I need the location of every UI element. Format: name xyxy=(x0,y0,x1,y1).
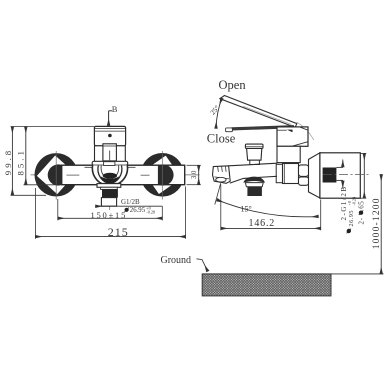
shower outlet dark crescent xyxy=(243,177,265,183)
dark threaded band xyxy=(102,189,118,197)
threaded nipple dark xyxy=(323,167,343,182)
handle inner column xyxy=(103,144,117,161)
svg-text:3.0: 3.0 xyxy=(191,170,198,179)
Ground label xyxy=(161,255,208,271)
svg-text:146.2: 146.2 xyxy=(249,218,276,229)
svg-text:2-: 2- xyxy=(358,217,366,224)
dim 1000-1200 to ground xyxy=(372,175,382,274)
ground hatched slab xyxy=(202,274,331,296)
spout top edge xyxy=(229,163,278,166)
B section arrow xyxy=(109,104,118,126)
side view center axis (dash-dot) xyxy=(323,174,370,176)
open lever inner line xyxy=(243,106,292,124)
spout tip cap xyxy=(213,166,231,184)
cartridge crown inner bowl xyxy=(98,166,122,183)
svg-text:1000-1200: 1000-1200 xyxy=(372,197,382,249)
crown bottom flange xyxy=(97,184,121,188)
body lower small section xyxy=(276,164,282,182)
dimension 215 xyxy=(35,187,185,240)
cartridge crown outer bowl xyxy=(92,165,127,183)
dimension 85.1 xyxy=(16,127,58,185)
right bar end dark cap xyxy=(152,164,173,185)
vertical axis through handle xyxy=(109,128,111,211)
svg-text:26.95: 26.95 xyxy=(130,207,146,214)
closed lever dark bar xyxy=(232,125,295,130)
crown dark crescent xyxy=(101,176,119,183)
svg-text:B: B xyxy=(112,104,118,114)
right escutcheon vertical crosshair xyxy=(161,151,163,200)
body upper block xyxy=(277,127,308,146)
open lever outline xyxy=(220,96,297,128)
G1/2B leader line with arrow xyxy=(96,205,163,207)
25-degree arc with arrows xyxy=(216,98,222,128)
body bar (horizontal) xyxy=(62,165,185,185)
dim 2-d65 escutcheon xyxy=(352,154,366,225)
tailpipe xyxy=(101,198,116,207)
shower outlet dark block xyxy=(247,187,262,196)
lever hidden curve to body xyxy=(297,122,314,140)
bar second lip lines xyxy=(85,166,93,168)
diverter knob on spout xyxy=(245,144,263,164)
crown inner cup line xyxy=(101,166,119,179)
svg-text:-0.28: -0.28 xyxy=(146,209,155,214)
wall cone xyxy=(309,153,320,198)
top extension line for 99.8/85.1 xyxy=(11,126,95,128)
svg-text:Ground: Ground xyxy=(161,255,192,266)
horizontal center axis of front view xyxy=(31,174,200,176)
svg-text:G1/2B: G1/2B xyxy=(121,198,140,206)
label d26.95 xyxy=(124,206,155,215)
svg-text:Close: Close xyxy=(207,132,236,146)
shower outlet groove band xyxy=(245,183,263,187)
neck xyxy=(101,187,118,189)
left escutcheon vertical crosshair xyxy=(55,151,57,200)
handle base block xyxy=(95,146,126,163)
center dash left inside bar xyxy=(67,174,80,176)
svg-text:150±15: 150±15 xyxy=(90,210,127,220)
wall escutcheon cylinder xyxy=(320,153,360,198)
left bar end dark cap xyxy=(48,164,69,185)
svg-text:99.8: 99.8 xyxy=(3,148,13,175)
svg-text:215: 215 xyxy=(108,225,129,239)
handle cap xyxy=(94,126,125,145)
escutcheon flange under handle xyxy=(92,161,128,165)
ground line extension xyxy=(331,273,384,275)
spout bottom edge xyxy=(230,176,277,183)
svg-text:15°: 15° xyxy=(241,205,252,214)
center dash right inside bar xyxy=(141,174,150,176)
crown stem rect xyxy=(104,162,115,166)
svg-text:65: 65 xyxy=(358,201,366,209)
dimension 30 (right of bar) xyxy=(187,165,201,184)
dimension 150±15 xyxy=(58,199,163,220)
crown dark ellipse shadow xyxy=(103,173,117,179)
body middle block xyxy=(277,146,300,162)
dim 2-G1/2B nipple (outside arrows) xyxy=(340,160,356,234)
right escutcheon dark ring xyxy=(141,153,185,197)
15 degree swoosh arc xyxy=(215,183,318,217)
hex nut flats (two) xyxy=(299,165,309,185)
body lower wide section xyxy=(283,164,299,184)
left escutcheon dark ring xyxy=(35,153,78,196)
svg-text:85.1: 85.1 xyxy=(16,148,26,175)
svg-text:26.95: 26.95 xyxy=(348,210,355,226)
dimension 99.8 xyxy=(3,127,46,196)
dim 146.2 xyxy=(221,185,321,231)
svg-text:Open: Open xyxy=(219,78,247,92)
closed lever end nub xyxy=(226,128,233,132)
